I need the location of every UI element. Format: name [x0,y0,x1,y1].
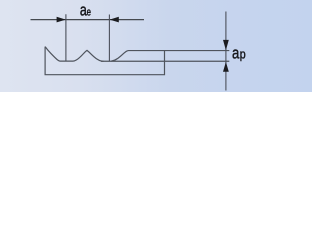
svg-text:p: p [240,48,246,62]
svg-text:e: e [87,6,91,19]
svg-text:a: a [232,44,240,63]
